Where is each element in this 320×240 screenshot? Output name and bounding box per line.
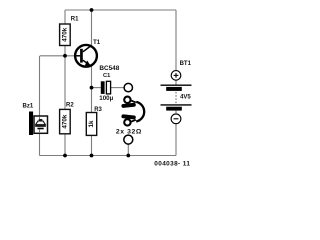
svg-text:C1: C1	[103, 73, 110, 79]
Bz1 piezo dome	[36, 121, 46, 125]
R3 body box	[86, 113, 96, 136]
svg-text:4V5: 4V5	[180, 95, 191, 101]
R2 body box	[60, 109, 71, 133]
node dot base junction	[63, 54, 67, 58]
T1 collector lead	[83, 45, 92, 51]
resistor R2	[60, 103, 75, 134]
T1 emitter lead	[83, 60, 92, 66]
C1 negative plate (solid)	[101, 81, 105, 94]
T1 emitter arrow	[85, 61, 91, 67]
wire Bz1 internal top stub	[39, 117, 41, 120]
wire Bz1 bottom vertical	[39, 133, 41, 156]
wire R2 bottom stub	[64, 133, 66, 156]
svg-text:R2: R2	[66, 103, 74, 109]
headphones LS (2x 32 ohm)	[116, 97, 144, 136]
svg-text:470k: 470k	[61, 114, 68, 129]
capacitor C1 electrolytic	[99, 73, 113, 102]
svg-text:BC548: BC548	[99, 65, 119, 72]
svg-text:004038- 11: 004038- 11	[154, 160, 190, 167]
wire emitter vertical	[91, 66, 93, 113]
svg-text:1k: 1k	[88, 120, 95, 128]
node dot emitter/C1	[90, 86, 94, 90]
BT1 cell 2 positive plate	[161, 104, 192, 106]
wire Bz1 internal bottom stub	[39, 129, 41, 133]
wire C1 to phone terminal	[111, 87, 125, 89]
T1 base bar	[80, 49, 83, 63]
wire R1 bottom stub	[64, 46, 66, 56]
BT1 cell 1 negative bar	[166, 87, 182, 91]
wire R3 bottom stub	[91, 135, 93, 156]
headphone lower ear link	[131, 120, 136, 122]
node dot phones / bottom rail	[126, 154, 130, 158]
BT1 minus terminal circle	[171, 114, 181, 124]
headphone lower ear pad	[121, 114, 136, 119]
transistor T1	[75, 40, 120, 72]
wire battery bar2 to minus circle	[175, 111, 177, 115]
wire Bz1 top vertical	[39, 56, 41, 117]
wire battery top vertical	[175, 10, 177, 71]
T1 body circle	[75, 45, 97, 67]
svg-text:Bz1: Bz1	[23, 104, 34, 110]
wire base node down to R2	[64, 56, 66, 111]
wire battery bottom vertical	[175, 123, 177, 155]
battery BT1	[161, 61, 192, 124]
terminal circle bottom (phones -)	[124, 135, 133, 144]
C1 positive plate (hollow)	[106, 81, 110, 94]
Bz1 disc nub	[39, 119, 43, 121]
svg-text:T1: T1	[93, 40, 101, 46]
BT1 cell 1 positive plate	[161, 84, 192, 86]
wire top rail	[65, 9, 176, 11]
headphone upper ear ring	[124, 97, 130, 103]
wire phone bottom terminal stub	[127, 144, 129, 156]
wire battery plus circle to plate	[175, 80, 177, 85]
svg-text:R1: R1	[71, 16, 79, 22]
headphone lower ear ring	[124, 119, 130, 125]
svg-text:100µ: 100µ	[99, 95, 113, 102]
Bz1 plate lower	[37, 128, 43, 130]
node dot R3 / bottom rail	[90, 154, 94, 158]
R1 body box	[60, 24, 71, 46]
Bz1 side electrode bar	[29, 112, 33, 136]
headphone headband arc	[136, 102, 144, 122]
svg-text:R3: R3	[94, 107, 102, 113]
headphone upper ear link	[131, 100, 136, 102]
Bz1 plate upper	[35, 125, 46, 127]
BT1 dashed cell separator	[175, 92, 177, 104]
wire collector vertical	[91, 10, 93, 46]
buzzer Bz1 piezo transducer	[23, 104, 48, 135]
terminal circle top (phones +)	[124, 83, 132, 91]
svg-text:2x 32Ω: 2x 32Ω	[116, 128, 142, 135]
node dot R2 / bottom rail	[63, 154, 67, 158]
Bz1 body box	[34, 116, 48, 133]
svg-text:BT1: BT1	[180, 61, 192, 67]
T1 base lead	[75, 55, 80, 57]
BT1 cell 2 negative bar	[166, 107, 182, 111]
resistor R3	[86, 107, 102, 135]
wire bottom rail	[40, 155, 177, 157]
BT1 plus terminal circle	[171, 71, 181, 81]
wire emitter to C1	[92, 87, 101, 89]
svg-text:470k: 470k	[61, 27, 68, 42]
headphone upper ear pad	[121, 103, 136, 108]
wire R1 top stub	[64, 10, 66, 24]
node dot collector/top rail	[90, 8, 94, 12]
resistor R1	[60, 16, 80, 45]
wire base horizontal	[40, 55, 75, 57]
